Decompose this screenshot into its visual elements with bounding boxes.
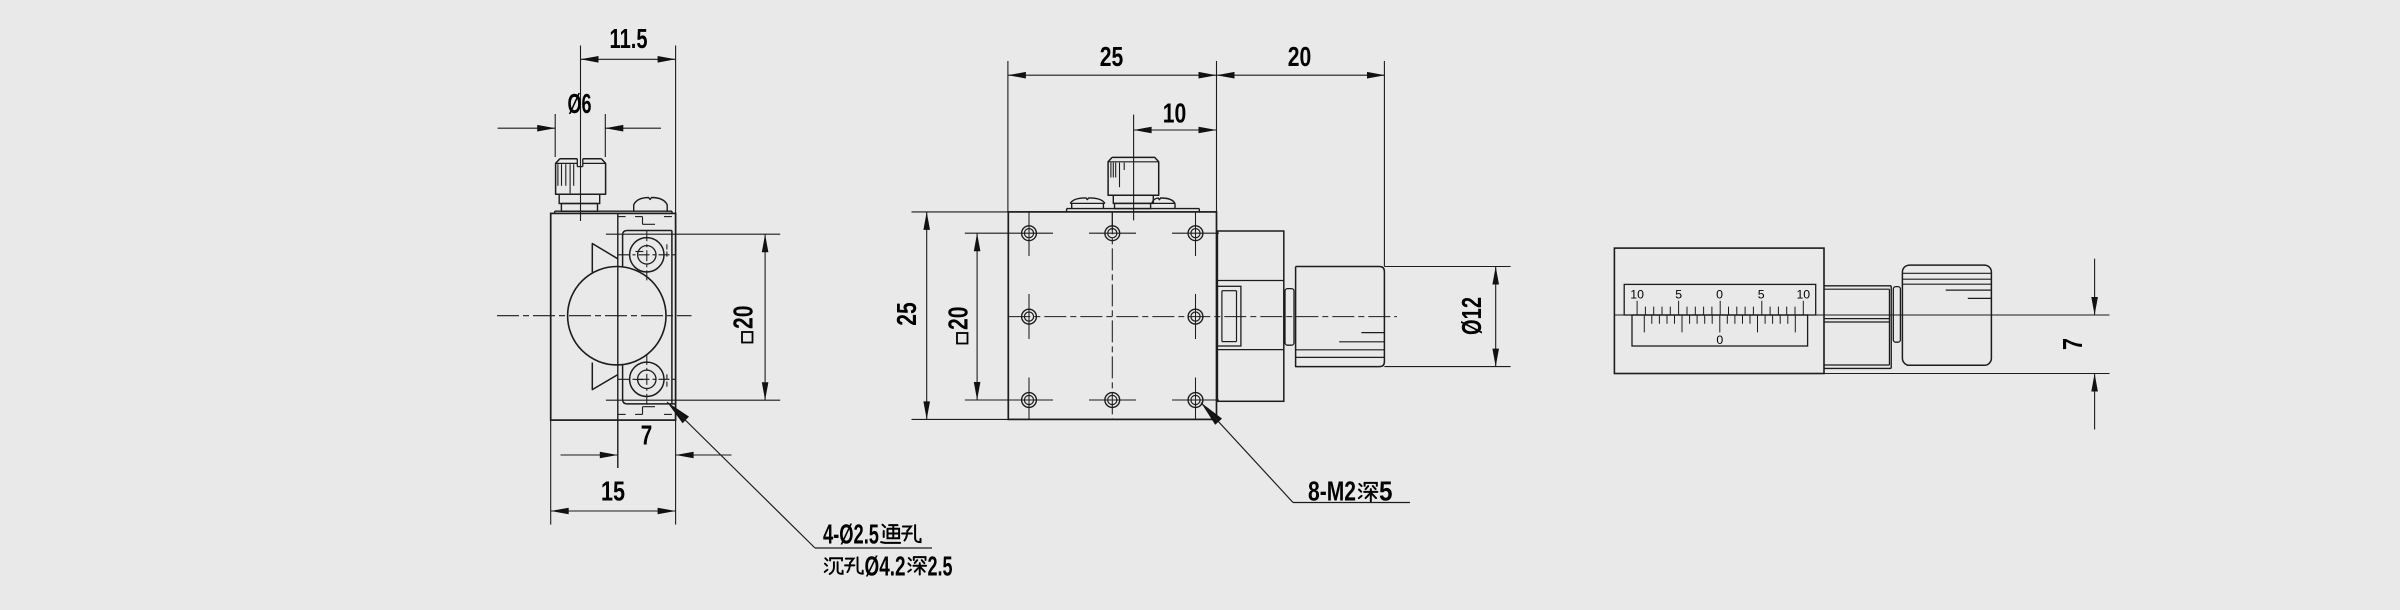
front view: counterbore hole H2 outer xyxy=(630,362,664,396)
dim 25 left: extension lines xyxy=(912,212,1009,420)
dim 7 side: arrow top xyxy=(2091,297,2098,315)
dim 25 left: text xyxy=(891,302,922,326)
side view: sleeve xyxy=(1824,286,1891,369)
leader L2: arrowhead xyxy=(1201,403,1222,425)
dim 20 top: arrow right xyxy=(1367,72,1385,79)
dim 7 side: dimension line segments xyxy=(2094,259,2096,430)
dim 25 top: text xyxy=(1100,41,1124,72)
dim sq20 front: dimension line xyxy=(764,234,766,400)
front view: wedge pointer top xyxy=(592,244,618,273)
svg-text:7: 7 xyxy=(2057,338,2088,350)
front view: wedge pointer bottom xyxy=(592,363,618,390)
side view: scale plate upper box xyxy=(1624,284,1816,315)
dim Ø6: arrow right xyxy=(605,125,623,132)
plan view: lock collar xyxy=(1285,289,1294,346)
dim Ø12: extension lines xyxy=(1384,267,1510,367)
front view: hidden screw hole top xyxy=(618,217,672,257)
leader L1: arrowhead xyxy=(667,402,689,423)
side view: axis centerline xyxy=(1614,314,2109,316)
side view: upper scale ticks xyxy=(1637,301,1803,315)
plan view: vertical centerline xyxy=(1111,212,1113,419)
plan view: top plate edge xyxy=(1067,209,1200,212)
plan view: hole col2 top tick xyxy=(1111,212,1113,230)
dim Ø6: text xyxy=(568,88,592,119)
dim 15: text xyxy=(601,476,625,507)
svg-text:8-M2: 8-M2 xyxy=(1308,476,1356,507)
plan view: hole column lines col3 xyxy=(1195,212,1197,419)
front view: knob slot xyxy=(577,159,583,167)
front view: knob body xyxy=(556,159,606,195)
svg-text:20: 20 xyxy=(728,306,759,330)
svg-text:5: 5 xyxy=(1758,288,1765,302)
side view: thimble shading lines xyxy=(1902,273,1991,298)
front view: counterbore hole H2 inner xyxy=(638,370,656,388)
dim Ø12: text xyxy=(1456,297,1487,335)
dim sq20 front: text xyxy=(728,306,759,343)
plan view: screw head S3 xyxy=(1152,198,1175,209)
plan view: knob base xyxy=(1115,203,1151,208)
svg-text:5: 5 xyxy=(1675,288,1682,302)
dim 7 side: arrow bottom xyxy=(2091,374,2098,392)
plan view: thimble body xyxy=(1296,267,1385,367)
dim sq20 front: arrow top xyxy=(762,234,769,252)
dim 25 left: arrow top xyxy=(923,212,930,230)
dim Ø6: extension lines xyxy=(555,114,605,157)
svg-text:25: 25 xyxy=(891,302,922,326)
dim sq20 front: arrow bottom xyxy=(762,382,769,400)
side view: upper scale labels xyxy=(1630,288,1810,302)
plan view: hole row line bottom xyxy=(965,399,1219,401)
dim 20 top: text xyxy=(1288,41,1312,72)
svg-text:20: 20 xyxy=(1288,41,1312,72)
front view: hole H1 centerlines xyxy=(619,230,676,280)
dim 15: dimension line xyxy=(551,510,676,512)
dim 7 side: text xyxy=(2057,338,2088,350)
svg-text:20: 20 xyxy=(943,307,974,331)
dim 25 left: dimension line xyxy=(926,212,928,420)
front view: knob base xyxy=(561,204,597,212)
dim 11.5: arrow right xyxy=(658,56,676,63)
dim 25/20 top: extension line middle xyxy=(1216,61,1218,212)
leader L1: text line 1 xyxy=(823,519,921,550)
dim 15: extension lines xyxy=(551,420,676,524)
front view: counterbore hole H1 outer xyxy=(630,238,664,272)
dim sq20 plan: arrow bottom xyxy=(974,382,981,400)
side view: scale plate lower box xyxy=(1632,315,1808,346)
plan view: square body outline xyxy=(1008,212,1216,420)
svg-text:25: 25 xyxy=(1100,41,1124,72)
side view: vernier zero label xyxy=(1716,333,1723,347)
plan view: knob neck xyxy=(1113,195,1153,203)
side view: main block outline xyxy=(1614,248,1824,373)
dim 10: arrow right xyxy=(1199,127,1217,134)
front view: carriage plate xyxy=(623,231,676,404)
front view: hole H2 centerlines xyxy=(619,354,676,405)
front view: horizontal centerline xyxy=(497,315,692,317)
side view: thimble body xyxy=(1902,265,1991,365)
dim Ø6: arrow left xyxy=(537,125,555,132)
front view: top plate edge xyxy=(555,211,672,213)
dim 7 front: arrow right xyxy=(676,452,694,459)
svg-text:10: 10 xyxy=(1630,288,1644,302)
plan view: hole row line top xyxy=(965,232,1219,234)
leader L1: lines xyxy=(667,402,932,548)
svg-text:Ø6: Ø6 xyxy=(568,88,592,119)
svg-text:15: 15 xyxy=(601,476,625,507)
svg-text:0: 0 xyxy=(1716,288,1723,302)
dim 10: extension line (knob centerline) xyxy=(1133,115,1135,221)
front view: knob neck xyxy=(559,194,600,203)
plan view: thimble shading lines xyxy=(1296,333,1385,358)
svg-text:11.5: 11.5 xyxy=(610,23,648,54)
dim Ø12: arrow bottom xyxy=(1492,349,1499,367)
plan view: micrometer mount block xyxy=(1217,231,1283,401)
dim 10: dimension line xyxy=(1134,129,1217,131)
dim 10: text xyxy=(1163,98,1187,129)
front view: counterbore hole H1 inner xyxy=(638,246,656,264)
dim 15: arrow right xyxy=(658,508,676,515)
front view: knob knurling xyxy=(558,164,574,193)
side view: lock collar xyxy=(1893,287,1900,343)
side view: bottom extension line xyxy=(1824,373,2110,375)
dim sq20 plan: text xyxy=(943,307,974,344)
dim 7 front: text xyxy=(641,420,653,451)
plan view: 8 x M2 tapped holes xyxy=(1022,226,1203,408)
dim 10: arrow left xyxy=(1134,127,1152,134)
plan view: horizontal centerline xyxy=(1008,316,1397,318)
dim sq20 front: extension lines xyxy=(606,234,780,400)
leader L2: lines xyxy=(1201,403,1410,503)
leader L1: text line 2 xyxy=(825,551,953,582)
dim Ø12: arrow top xyxy=(1492,267,1499,285)
leader L2: text xyxy=(1308,476,1393,507)
dim 11.5: extension lines xyxy=(581,46,676,222)
dim 20 top: arrow left xyxy=(1217,72,1235,79)
dim Ø12: dimension line xyxy=(1495,267,1497,367)
dim 25 top: dimension line xyxy=(1008,74,1385,76)
plan view: knob knurling xyxy=(1111,163,1124,188)
dim sq20 plan: arrow top xyxy=(974,233,981,251)
plan view: knob body xyxy=(1108,157,1159,195)
svg-text:2.5: 2.5 xyxy=(928,551,953,582)
side view: vernier ticks xyxy=(1644,315,1795,332)
dim sq20 plan: dimension line xyxy=(976,233,978,400)
front view: screw head S1 xyxy=(634,198,668,212)
dim 25 top: arrow right xyxy=(1199,72,1217,79)
svg-text:0: 0 xyxy=(1716,333,1723,347)
svg-text:Ø4.2: Ø4.2 xyxy=(865,551,906,582)
dim 7 front: dimension tails xyxy=(561,454,732,456)
front view: main body outline xyxy=(551,213,676,420)
dim 11.5: arrow left xyxy=(581,56,599,63)
svg-text:10: 10 xyxy=(1796,288,1810,302)
svg-text:10: 10 xyxy=(1163,98,1187,129)
plan view: hole column lines col1 xyxy=(1028,212,1030,419)
dim Ø6: dimension tails xyxy=(498,127,661,129)
dim 11.5: dimension line xyxy=(581,58,676,60)
svg-text:Ø12: Ø12 xyxy=(1456,297,1487,335)
dim 11.5: text xyxy=(610,23,648,54)
front view: carriage left edge / 7-dim extension xyxy=(617,213,619,468)
front view: leadscrew circle xyxy=(568,267,666,365)
dim 25 left: arrow bottom xyxy=(923,401,930,419)
plan view: mount block cavity lines xyxy=(1217,281,1283,350)
dim 7 front: arrow left xyxy=(600,452,618,459)
plan view: screw head S2 xyxy=(1070,198,1105,209)
dim 25 top: arrow left xyxy=(1008,72,1026,79)
front view: hidden screw hole bottom xyxy=(618,374,672,414)
dim 25 top: extension line left xyxy=(1007,61,1009,212)
svg-text:4-Ø2.5: 4-Ø2.5 xyxy=(823,519,879,550)
dim 20 top: extension line right xyxy=(1383,61,1385,267)
dim 15: arrow left xyxy=(551,508,569,515)
plan view: bearing bracket xyxy=(1217,286,1241,346)
svg-text:5: 5 xyxy=(1379,476,1393,507)
svg-text:7: 7 xyxy=(641,420,653,451)
